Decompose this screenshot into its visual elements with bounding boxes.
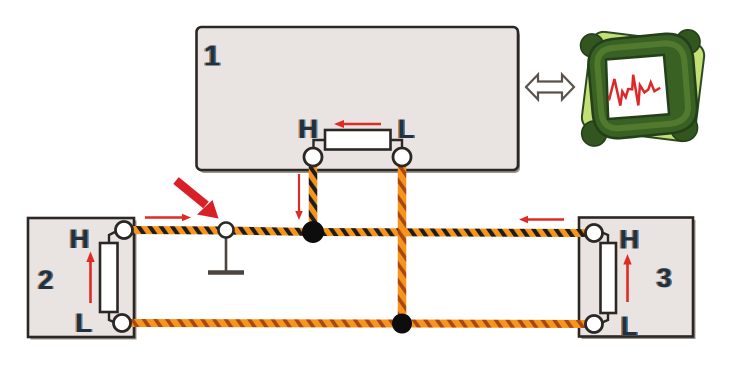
wire: L drop from box1 L terminal to bottom-bus junction — [398, 158, 407, 324]
label 2 — [36, 265, 54, 295]
instrument box 1 (top unit) — [197, 27, 521, 173]
svg-text:3: 3 — [656, 263, 671, 293]
terminal L1 (box1 right binding post) — [393, 148, 411, 166]
wire: H drop from box1 H terminal to top-bus junction — [309, 158, 318, 233]
svg-text:H: H — [620, 225, 640, 255]
corner foot bottom-right — [670, 113, 699, 142]
double-headed link arrow between box1 and display icon — [526, 75, 574, 100]
label L (box 3) — [619, 311, 639, 341]
terminal H1 (box1 left binding post) — [304, 148, 322, 166]
wire: top bus (striped orange/black) from box2 H to box3 H — [116, 230, 594, 233]
label L (box 1) — [396, 114, 416, 144]
svg-text:2: 2 — [38, 265, 53, 295]
small red arrow on top bus right (pointing left) — [519, 216, 564, 224]
junction node on bottom bus — [392, 314, 412, 334]
corner foot top-left — [580, 33, 605, 58]
red waveform — [607, 73, 661, 108]
ring body (dark green frame) — [587, 32, 699, 140]
terminal H3 — [586, 225, 603, 242]
resistor R2 (inside box 2) — [100, 231, 118, 323]
small red arrow beside H drop (pointing down) — [295, 174, 303, 220]
instrument box 2 (left unit) — [28, 218, 137, 340]
current arrow over R1 (pointing left) — [334, 120, 381, 128]
terminal H2 — [116, 222, 133, 239]
current arrow in box 2 (pointing up) — [86, 252, 94, 304]
label 1 — [202, 41, 221, 73]
display/monitor icon (green gauge with red waveform) — [574, 23, 713, 151]
label 3 — [655, 263, 673, 293]
current arrow in box 3 (pointing up) — [623, 254, 631, 302]
terminal L2 — [114, 315, 131, 332]
corner foot top-right — [675, 29, 701, 55]
svg-text:H: H — [298, 114, 318, 144]
corner foot bottom-left — [581, 120, 608, 147]
ground node (white circle on top bus) — [219, 223, 234, 238]
ground symbol — [208, 238, 244, 273]
terminal L3 — [586, 316, 603, 333]
light green cushion behind frame — [580, 30, 705, 142]
svg-text:L: L — [621, 311, 638, 341]
resistor R3 (inside box 3) — [601, 232, 617, 323]
svg-text:L: L — [75, 308, 92, 338]
label L (box 2) — [74, 308, 94, 338]
junction node on top bus — [302, 221, 324, 243]
big red arrow pointing at ground node — [176, 181, 219, 219]
svg-text:1: 1 — [204, 41, 220, 73]
wire: bottom bus (orange twisted) from box2 L to box3 L — [114, 323, 594, 324]
resistor R1 (inside box 1) — [314, 130, 403, 150]
svg-text:H: H — [70, 224, 90, 254]
label H (box 1) — [297, 114, 320, 144]
small red arrow on top bus left (pointing right) — [145, 214, 191, 222]
ring highlight — [596, 42, 689, 129]
instrument box 3 (right unit) — [579, 218, 696, 340]
screen bezel — [604, 55, 669, 119]
label H (box 3) — [618, 225, 641, 255]
label H (box 2) — [68, 224, 91, 254]
svg-text:L: L — [398, 114, 415, 144]
